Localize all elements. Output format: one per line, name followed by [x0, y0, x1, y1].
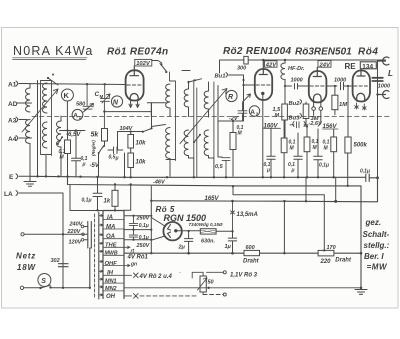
svg-text:0,1μ: 0,1μ: [319, 163, 329, 169]
switch T2 top: [189, 79, 202, 89]
wire K to grid resistor: [66, 101, 68, 131]
row MN1: [99, 278, 124, 284]
T2 bobbin frame: [189, 80, 197, 177]
svg-text:A: A: [250, 109, 255, 116]
label -2,6V: [309, 121, 323, 127]
svg-text:gez.: gez.: [365, 218, 382, 227]
bus B dots: [114, 183, 132, 185]
row OH x mark: [124, 294, 138, 299]
junction tube2 top: [262, 59, 264, 61]
trimmer cap 580: [76, 84, 94, 112]
tube Rö3 grid dashed: [310, 85, 325, 87]
capacitor 1000 coupling: [284, 78, 309, 90]
wire T0 bottom to E: [45, 156, 47, 177]
junction speaker bottom: [376, 93, 378, 95]
tube Rö3 anode: [313, 67, 321, 76]
T2 secondary winding: [184, 130, 188, 158]
wire T2 mid: [188, 110, 190, 117]
wire busB down to switch column top: [70, 185, 103, 211]
svg-text:μ: μ: [266, 168, 270, 174]
svg-text:1000: 1000: [334, 78, 346, 84]
resistor 300: [237, 56, 248, 71]
tube Rö1 anode: [130, 66, 139, 76]
svg-text:1M: 1M: [339, 102, 347, 108]
bus 165V: [151, 178, 377, 202]
svg-text:R: R: [228, 94, 233, 101]
tube Rö3 pin circles: [312, 103, 323, 111]
circle A1: [72, 109, 83, 120]
svg-text:Rö1 RE074n: Rö1 RE074n: [107, 47, 168, 58]
svg-text:-46V: -46V: [153, 179, 166, 185]
label Netz 18W: [16, 252, 36, 272]
row IH: [99, 270, 124, 276]
junction on grid line: [86, 83, 88, 85]
underline 156V: [323, 128, 339, 130]
tube Rö1 filament: [130, 93, 138, 100]
resistor 170/220 Draht: [318, 245, 352, 265]
svg-text:13,5mA: 13,5mA: [237, 212, 258, 218]
cap 0,1u rows b: [129, 230, 148, 241]
tube5 filament diagonals: [151, 218, 165, 241]
svg-text:-6,5V: -6,5V: [66, 132, 81, 138]
transformer core dashed: [94, 214, 96, 299]
AVC wire y111.6: [104, 111, 151, 113]
wire A4 tap: [27, 137, 32, 139]
label 250V bottom: [136, 243, 151, 249]
label Rö4: [358, 47, 378, 58]
wire T1 primary bottom: [169, 110, 171, 117]
svg-text:MA: MA: [106, 224, 115, 230]
underline 160V: [264, 127, 281, 129]
tube Rö2: [255, 69, 272, 100]
tube Rö4 grid dashed: [354, 85, 369, 87]
capacitor 0,5u: [108, 147, 123, 162]
svg-text:Bu3: Bu3: [289, 116, 301, 122]
switch S circle: [38, 274, 51, 287]
svg-text:7340Wdg 0,15Ø: 7340Wdg 0,15Ø: [189, 222, 223, 227]
svg-text:N0RA K4Wa: N0RA K4Wa: [13, 44, 94, 58]
bus A junction dots: [36, 175, 379, 179]
vertical x335.7 busA to 165V: [335, 177, 337, 201]
switch T2-T3 lower: [194, 135, 201, 143]
tube5 electrodes: [168, 225, 171, 238]
svg-text:A: A: [73, 113, 78, 120]
LA vertical down: [62, 193, 64, 288]
wire coil L1 bottom to E bus: [29, 153, 31, 177]
label 13,5mA: [231, 201, 258, 231]
svg-text:Rö4: Rö4: [358, 47, 378, 58]
capacitor 0,1u c: [314, 129, 329, 176]
trimmer cap CM: [95, 84, 111, 128]
svg-text:THE: THE: [105, 243, 118, 249]
row OH: [99, 294, 115, 300]
box 134: [360, 62, 376, 71]
tube Rö2 cathode dot: [261, 92, 264, 95]
mains line Netz: [21, 233, 87, 236]
transformer secondary: [98, 212, 100, 299]
dashed chassis line: [32, 116, 392, 118]
ground (E): [24, 176, 36, 186]
svg-text:μ: μ: [115, 156, 119, 162]
trimmer between 160V and -2,6V: [290, 122, 308, 128]
coil T0a winding: [43, 83, 48, 113]
svg-text:170: 170: [327, 245, 336, 251]
stub near T2 top: [182, 70, 190, 72]
terminal 1,1V: [223, 271, 257, 279]
box 24V: [318, 61, 331, 69]
svg-text:RE: RE: [345, 62, 357, 71]
resistor 5k Regler: [91, 129, 108, 147]
title underline: [13, 58, 88, 60]
svg-text:μ: μ: [291, 168, 295, 174]
coil T0 bobbin: [41, 81, 52, 156]
capacitor 2u: [178, 230, 193, 253]
ground right dots: [360, 252, 363, 289]
wire rectifier output: [178, 230, 233, 233]
svg-text:1μ: 1μ: [225, 244, 232, 250]
svg-text:AD: AD: [8, 101, 18, 108]
T3 primary winding: [204, 91, 208, 113]
svg-text:MN2: MN2: [105, 286, 117, 292]
row OA: [99, 234, 124, 240]
svg-text:0,1μ: 0,1μ: [82, 198, 92, 204]
wire vertical x37.5: [37, 81, 39, 177]
svg-text:Ber. I: Ber. I: [364, 252, 384, 261]
transformer primary: [88, 222, 92, 288]
resistor 600 Draht: [243, 245, 260, 264]
terminal LA: [4, 191, 63, 199]
vertical x306 busA to 165V: [305, 177, 307, 201]
svg-text:0,1μ: 0,1μ: [139, 223, 149, 229]
wire grid to T1 secondary: [147, 103, 166, 127]
svg-text:18W: 18W: [17, 263, 36, 272]
svg-text:1000: 1000: [291, 78, 303, 84]
tuning gang arrow mid: [180, 89, 227, 144]
svg-text:OH: OH: [106, 294, 116, 300]
note gez Schaltstellg: [363, 218, 390, 272]
svg-text:A1: A1: [8, 82, 17, 89]
label -6,5V: [66, 132, 81, 138]
svg-text:102V: 102V: [136, 61, 151, 67]
tap 220V: [67, 229, 85, 236]
row OHF: [99, 261, 124, 267]
tube5 box left edge: [150, 186, 152, 253]
svg-text:IA: IA: [107, 215, 113, 221]
svg-text:4V Rö1: 4V Rö1: [127, 255, 149, 261]
wire grid coupling tube3 to RE134: [326, 82, 353, 89]
tube Rö4 anode: [357, 69, 365, 76]
tube Rö3 filament: [314, 94, 322, 102]
tube Rö2 anode: [259, 60, 267, 75]
svg-text:Rö3REN501: Rö3REN501: [295, 47, 352, 58]
capacitor 1u: [225, 230, 237, 253]
dots on column top wire: [96, 209, 116, 211]
tube Rö4 pins x marks: [355, 103, 366, 110]
wire -6,5V node: [60, 130, 86, 132]
bus 165V dots: [150, 200, 337, 203]
wire row IA right: [124, 215, 151, 217]
label Rö3 REN501: [295, 47, 352, 58]
circle A2: [249, 106, 259, 117]
T2 primary winding: [184, 89, 188, 110]
resistor 0,1M a: [281, 120, 295, 176]
svg-text:0,5: 0,5: [215, 164, 224, 170]
svg-text:MWB: MWB: [105, 251, 118, 257]
terminal AD: [8, 101, 27, 108]
svg-text:A3: A3: [8, 118, 17, 125]
tube Rö1 grid dashed: [127, 84, 142, 86]
svg-text:50: 50: [208, 279, 214, 285]
feed line 194.8: [233, 186, 324, 250]
svg-text:K: K: [64, 91, 70, 100]
wire pot top bracket: [180, 272, 224, 278]
label 104V: [120, 126, 134, 132]
svg-text:4V Rö 2 u.4: 4V Rö 2 u.4: [139, 274, 173, 280]
wire 5k bottom to bus: [99, 141, 105, 176]
tube Rö3: [309, 71, 327, 102]
svg-text:E: E: [9, 174, 14, 181]
svg-text:600: 600: [246, 245, 255, 251]
terminal pot bottom: [223, 293, 226, 296]
label Bu1: [215, 73, 244, 80]
wire L2 top/bottom: [60, 116, 62, 176]
antenna coil L1a: [26, 84, 31, 113]
switch column outline: [103, 211, 124, 299]
capacitor 0,1u b: [288, 133, 302, 176]
svg-text:M: M: [275, 113, 280, 119]
wire AD tap: [27, 102, 32, 104]
coil T0b winding: [43, 122, 48, 148]
switch tube1 anode: [160, 64, 167, 72]
resistor 0,1M tube2 grid: [230, 125, 244, 176]
wire 102V box to switch: [152, 61, 162, 64]
svg-text:630n.: 630n.: [201, 239, 216, 245]
capacitor 0,1u a: [264, 129, 276, 177]
row IA: [99, 215, 124, 221]
svg-text:250V: 250V: [136, 215, 151, 221]
potentiometer 50: [198, 272, 214, 294]
label 4V Rö1: [127, 255, 149, 261]
label Rö 5: [156, 205, 175, 214]
switch Regler: [99, 146, 104, 153]
resistor 0,1M c: [323, 129, 337, 177]
svg-text:Rö2 REN1004: Rö2 REN1004: [223, 46, 291, 57]
svg-text:24V: 24V: [319, 62, 331, 68]
circle K: [61, 89, 73, 101]
T1 bobbin frame: [166, 72, 176, 161]
tube Rö5 RGN1500: [163, 222, 181, 240]
svg-text:gn: gn: [130, 261, 137, 267]
tube5 anode dot: [174, 229, 177, 232]
wire re134 box to speaker line: [376, 61, 377, 178]
svg-text:IH: IH: [107, 271, 114, 277]
label 250V top: [136, 215, 151, 221]
wire -2V node: [218, 85, 244, 133]
junction LA mains cross: [62, 233, 64, 235]
switch 104V blade: [143, 129, 152, 132]
label -2V: [229, 116, 239, 122]
svg-text:10k: 10k: [136, 160, 147, 166]
label 1000 re134: [334, 78, 346, 84]
wire pot bottom: [203, 294, 223, 296]
capacitor 0,1u la: [82, 177, 103, 210]
tube Rö4: [353, 71, 370, 102]
wire T3 verticals: [209, 82, 214, 176]
tube Rö2 grid dashed: [256, 84, 271, 86]
circle N: [111, 96, 122, 107]
T3 secondary winding: [204, 130, 208, 158]
capacitor 0,5u T3: [215, 158, 230, 177]
svg-text:HF-Dr.: HF-Dr.: [288, 66, 305, 72]
heater bus: [124, 252, 361, 254]
mains switch line: [20, 285, 91, 289]
capacitor 0,1u output inline: [360, 169, 370, 182]
capacitor 302: [51, 258, 69, 267]
wire T2 bottom to bus: [193, 158, 195, 176]
vertical grid return x218: [218, 86, 222, 158]
svg-text:165V: 165V: [205, 196, 220, 202]
tube Rö1: [126, 70, 144, 100]
circle R: [226, 90, 237, 101]
svg-text:Netz: Netz: [16, 252, 36, 261]
terminal E: [9, 174, 30, 181]
svg-text:L: L: [388, 69, 393, 78]
wire 0,5u right to bus: [124, 153, 126, 176]
resistor 500k: [345, 85, 368, 187]
ground symbol right: [355, 289, 367, 294]
box 42V: [265, 61, 278, 69]
switch L2: [58, 137, 63, 144]
svg-text:2μ: 2μ: [178, 245, 186, 251]
wire Bu1 to tube2 grid: [244, 75, 256, 85]
tap 120V: [69, 239, 88, 246]
wire 104V row: [118, 132, 143, 150]
resistor 0,1M grid: [59, 131, 71, 177]
resistor 10k upper: [128, 132, 146, 154]
resistor 1k: [104, 184, 119, 210]
title NORA K4Wa: [13, 44, 94, 58]
svg-text:-2,6V: -2,6V: [309, 121, 323, 127]
svg-text:(Regler): (Regler): [91, 140, 96, 156]
wire A1 line to tube1 grid: [19, 84, 126, 85]
label Rö2 REN1004: [223, 46, 291, 57]
svg-text:A4: A4: [8, 136, 17, 143]
svg-text:1000: 1000: [378, 84, 390, 90]
vertical 165V to heater: [283, 201, 285, 253]
row MA: [99, 224, 124, 230]
arrow rt: [124, 246, 134, 254]
wire busB to column x130: [124, 184, 131, 210]
box 102V: [135, 59, 152, 67]
svg-text:Bu1: Bu1: [215, 74, 226, 80]
label Regler vertical: [91, 140, 96, 156]
svg-text:Draht: Draht: [243, 259, 260, 265]
svg-text:Schalt-: Schalt-: [363, 230, 390, 239]
svg-text:10k: 10k: [136, 141, 147, 147]
switch top-left: [48, 78, 58, 85]
row MWB: [99, 250, 124, 256]
resistor 1,5M: [273, 86, 288, 138]
svg-text:1,1V Rö 3: 1,1V Rö 3: [230, 273, 258, 279]
label 160V: [264, 123, 279, 129]
svg-text:S: S: [41, 278, 46, 285]
wire row OA right: [124, 239, 151, 241]
svg-text:μ: μ: [82, 162, 86, 168]
antenna coil L1b: [26, 120, 31, 153]
label 4V Rö 2 u.4: [139, 274, 173, 280]
coil L2 winding: [57, 121, 62, 147]
svg-text:-2V: -2V: [229, 116, 239, 122]
wire tube2 cathode down: [262, 93, 264, 176]
svg-text:LA: LA: [4, 191, 13, 198]
svg-text:302: 302: [51, 258, 60, 264]
svg-text:104V: 104V: [120, 126, 134, 132]
anode supply bus top: [220, 60, 386, 73]
label 165V: [205, 196, 220, 202]
heater bus dots: [150, 252, 285, 255]
resistor 630n field coil: [200, 229, 216, 245]
label L speaker: [388, 69, 393, 78]
tuning arrow antenna: [22, 89, 58, 132]
svg-text:42V: 42V: [265, 62, 277, 68]
terminal A1: [8, 81, 27, 89]
svg-text:120V: 120V: [69, 240, 83, 246]
svg-text:134: 134: [362, 63, 373, 70]
speaker terminal top: [378, 57, 390, 65]
svg-text:300: 300: [237, 66, 246, 72]
tube Rö4 filament: [357, 93, 365, 101]
arrow gn: [124, 261, 137, 267]
terminal A3: [8, 117, 27, 125]
label -46V: [153, 179, 166, 185]
svg-text:M: M: [100, 94, 104, 99]
label Bu3: [289, 114, 302, 122]
vertical separator right: [360, 195, 362, 197]
wiper line MN2: [124, 287, 361, 289]
tube Rö1 filament pins arrows: [129, 101, 139, 108]
wire row MA right: [124, 229, 151, 231]
row MN2: [99, 286, 124, 292]
wire tube3 right pin down: [314, 110, 321, 126]
svg-text:250V: 250V: [136, 243, 151, 249]
resistor 10k lower: [128, 153, 146, 176]
svg-text:220V: 220V: [67, 229, 82, 235]
row THE: [99, 242, 124, 248]
svg-text:1k: 1k: [104, 199, 111, 205]
cap 0,1u rows a: [129, 216, 148, 230]
capacitor 0,1u grid: [72, 131, 88, 177]
wire OH dashed to pot: [140, 295, 198, 297]
svg-text:Draht: Draht: [335, 257, 352, 263]
svg-text:500k: 500k: [354, 143, 368, 149]
label Rö1 RE074n: [107, 47, 168, 58]
label RE: [345, 62, 357, 71]
resistor 3M bu3: [303, 102, 319, 127]
label 156V: [323, 124, 338, 130]
T1 primary winding: [166, 84, 170, 110]
ground vertical right: [360, 186, 362, 289]
svg-text:220: 220: [320, 259, 332, 265]
label 7340Wdg 0,15: [189, 222, 223, 227]
resistor 0,1M b: [304, 125, 319, 176]
bus B -46V: [68, 177, 362, 186]
svg-text:=MW: =MW: [367, 263, 389, 272]
label Bu2: [289, 100, 302, 108]
svg-text:0,1μ: 0,1μ: [360, 169, 370, 175]
row IH x mark: [124, 273, 138, 278]
T1 secondary winding: [166, 128, 170, 160]
T3 bobbin frame: [209, 82, 214, 158]
